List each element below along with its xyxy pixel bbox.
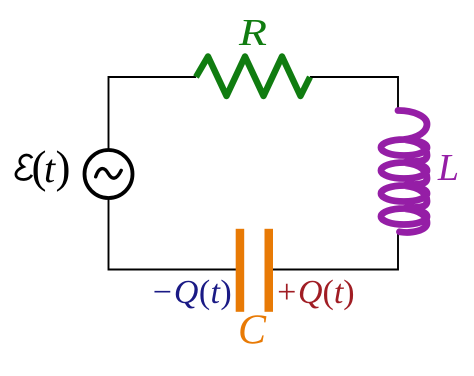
- svg-text:−Q(t): −Q(t): [151, 274, 233, 311]
- svg-text:R: R: [238, 12, 267, 54]
- svg-text:L: L: [437, 147, 459, 189]
- svg-text:(t): (t): [32, 142, 71, 192]
- svg-text:+Q(t): +Q(t): [275, 274, 355, 311]
- svg-text:C: C: [238, 308, 267, 354]
